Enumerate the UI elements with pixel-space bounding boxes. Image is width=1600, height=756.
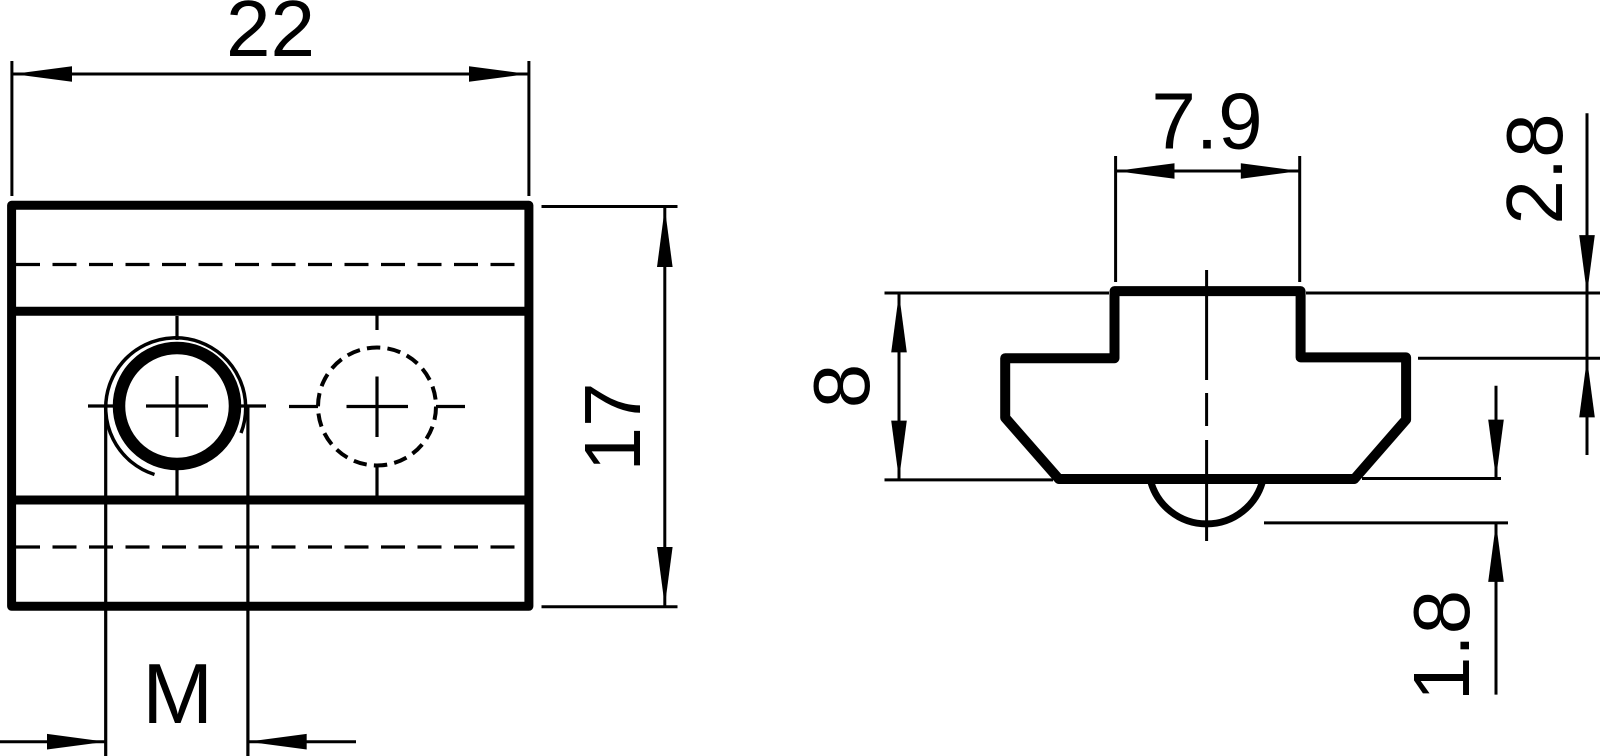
svg-text:22: 22 — [226, 0, 315, 73]
svg-text:7.9: 7.9 — [1151, 77, 1262, 166]
svg-text:M: M — [142, 647, 213, 742]
svg-text:8: 8 — [797, 364, 886, 409]
svg-text:17: 17 — [568, 383, 657, 472]
svg-text:1.8: 1.8 — [1397, 590, 1486, 701]
svg-text:2.8: 2.8 — [1490, 113, 1579, 224]
